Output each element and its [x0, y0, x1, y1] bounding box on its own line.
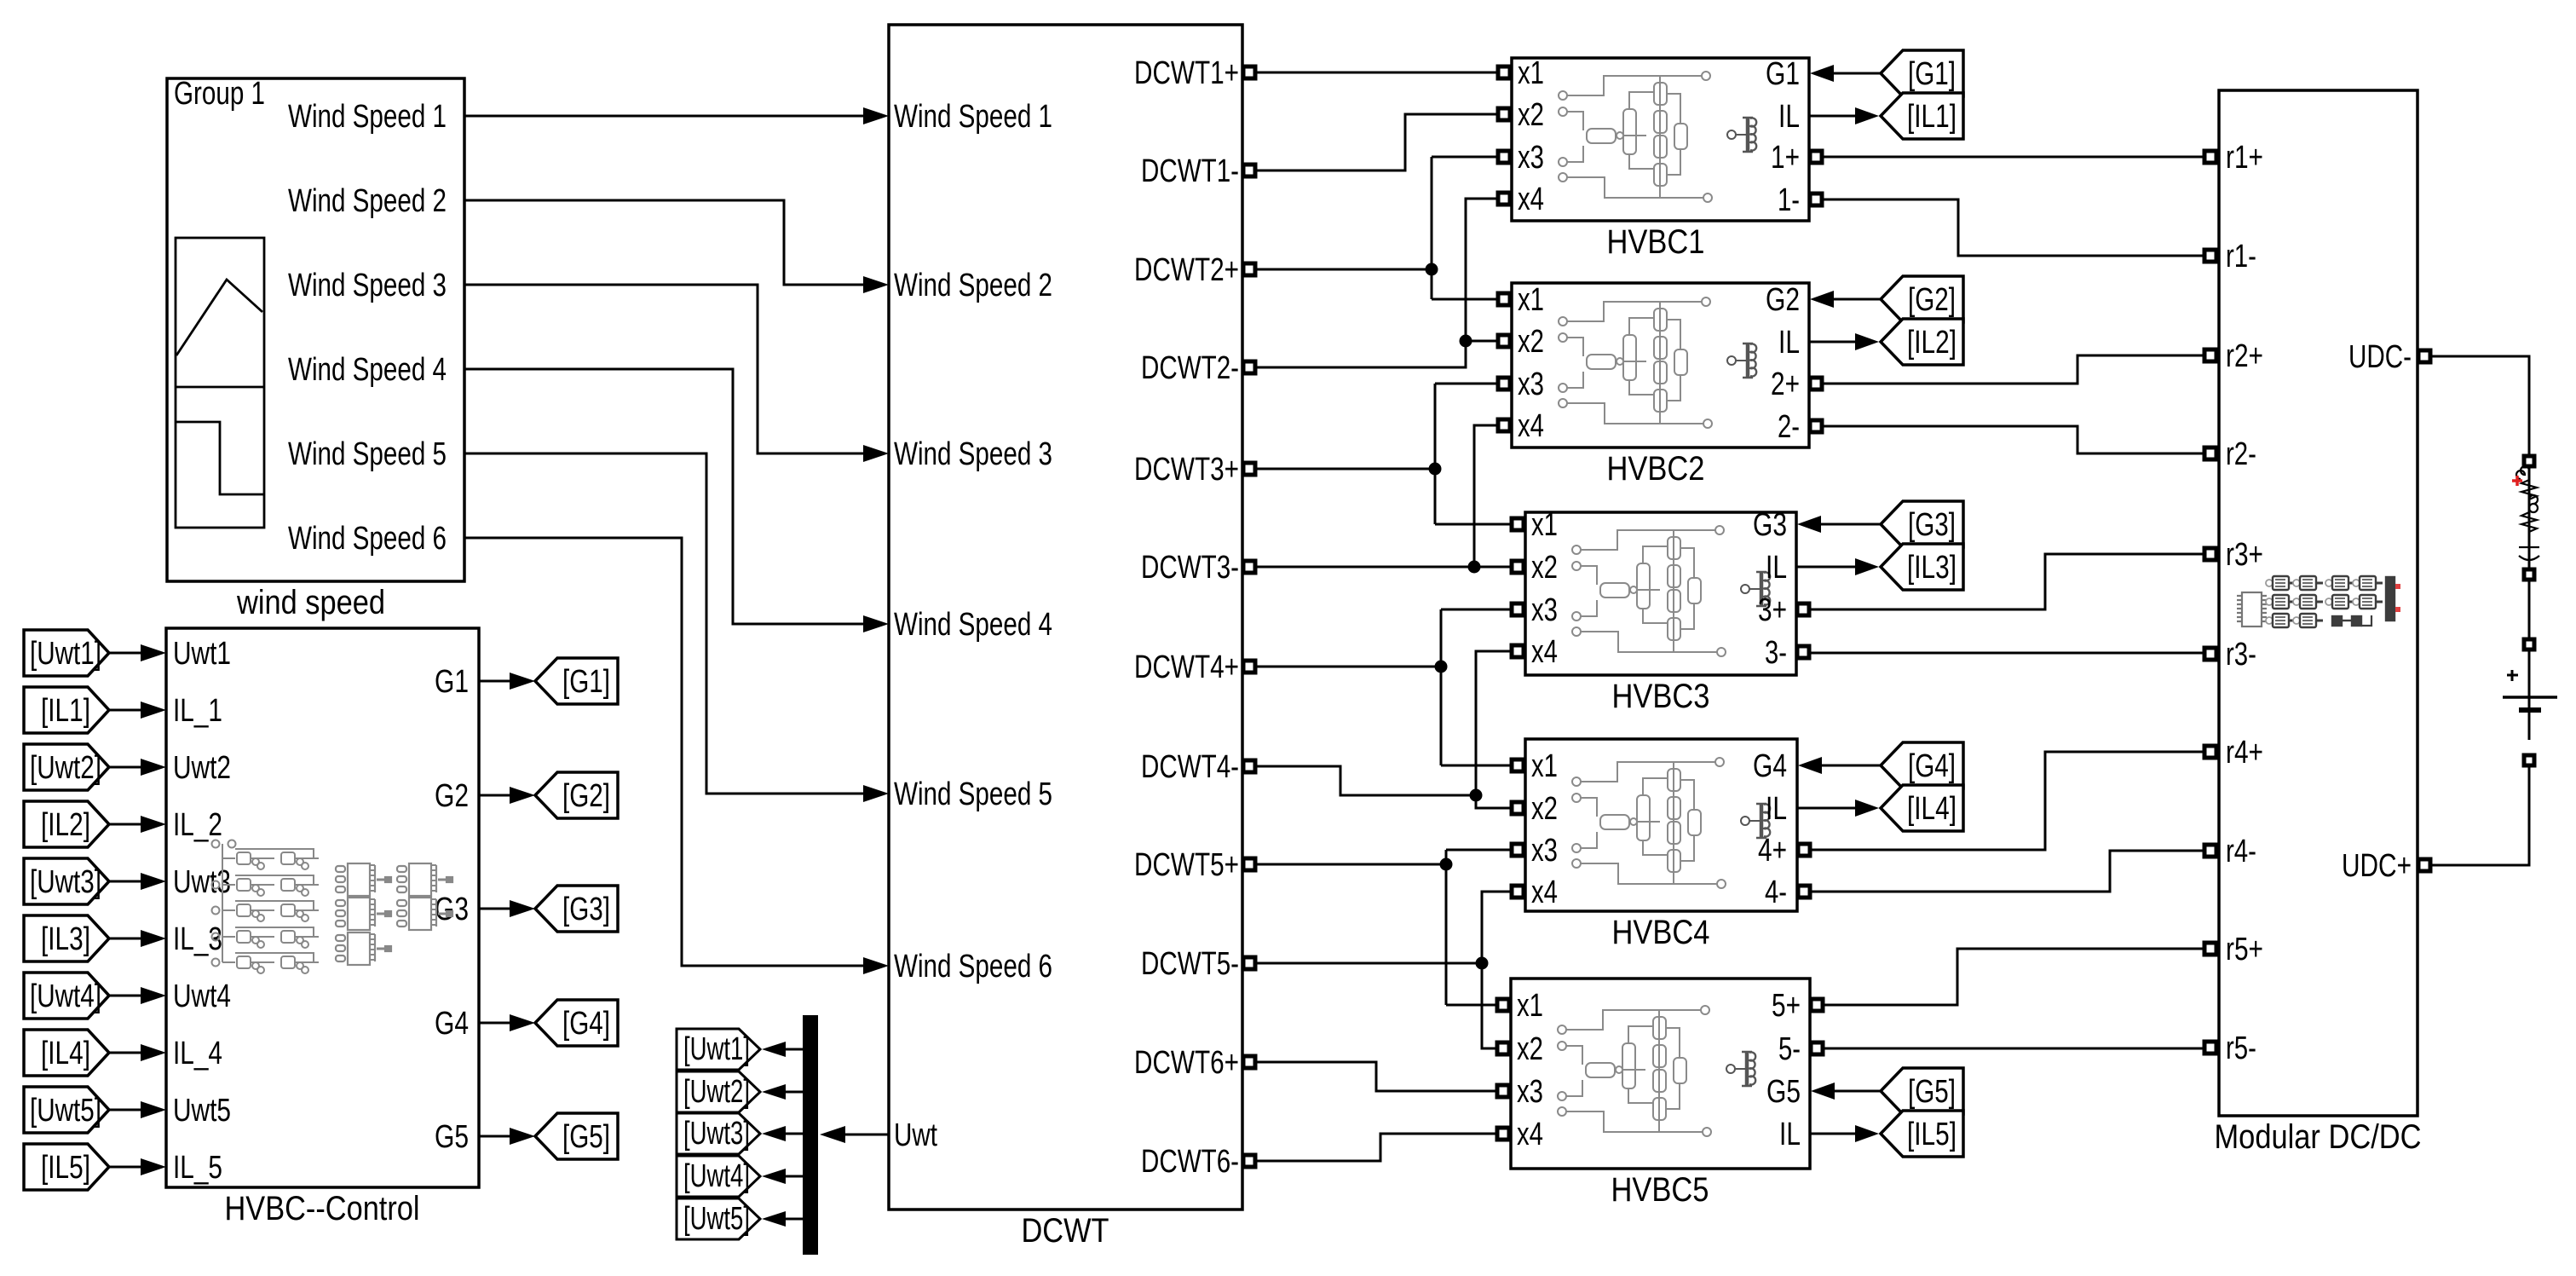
svg-text:IL_3: IL_3: [173, 921, 222, 957]
svg-text:[G4]: [G4]: [1908, 748, 1956, 784]
wire DCWT3- branch to HVBC2 x4: [1474, 425, 1498, 567]
svg-text:IL_2: IL_2: [173, 807, 222, 843]
port pad DCWT2+: [1243, 263, 1255, 275]
wire DCWT6+ to HVBC5 x3: [1256, 1062, 1497, 1091]
wire DCWT5- branches to HVBC4 x4 / HVBC5 x2: [1482, 892, 1512, 1048]
wire DCWT3- to HVBC3 x2: [1256, 566, 1512, 569]
wire Wind Speed 3: [464, 285, 863, 453]
svg-text:2-: 2-: [1778, 409, 1800, 445]
svg-text:Wind Speed 2: Wind Speed 2: [288, 183, 447, 219]
wire demux to [Uwt5]: [786, 1218, 803, 1221]
port pad r2+: [2204, 349, 2216, 361]
Goto tag [Uwt1] (demux): [677, 1029, 760, 1070]
svg-text:Wind Speed 3: Wind Speed 3: [288, 268, 447, 303]
From tag [Uwt1]: [24, 630, 109, 676]
wire DCWT4+: [1256, 666, 1441, 668]
svg-text:x3: x3: [1531, 592, 1558, 628]
svg-text:wind speed: wind speed: [236, 584, 385, 621]
svg-text:HVBC--Control: HVBC--Control: [225, 1190, 420, 1227]
port pad DCWT3+: [1243, 463, 1255, 475]
wire DCWT1- to HVBC1 x2: [1256, 114, 1498, 170]
Goto tag [Uwt2] (demux): [677, 1071, 760, 1112]
port pad r1+: [2204, 151, 2216, 163]
From tag [IL2]: [24, 801, 109, 847]
wire 1+ to r1+: [1821, 156, 2204, 159]
wire HVBC2 IL to [IL2]: [1809, 341, 1855, 344]
svg-text:3-: 3-: [1765, 635, 1787, 671]
Goto tag [IL4]: [1881, 785, 1963, 831]
svg-text:HVBC4: HVBC4: [1612, 914, 1710, 951]
From tag [IL3]: [24, 915, 109, 961]
From tag [Uwt4]: [24, 973, 109, 1019]
svg-text:x2: x2: [1518, 97, 1544, 133]
Goto tag [Uwt5] (demux): [677, 1198, 760, 1239]
svg-text:r5+: r5+: [2226, 932, 2263, 967]
wire DCWT3+: [1256, 468, 1435, 471]
svg-text:Uwt: Uwt: [894, 1117, 937, 1153]
svg-text:DCWT5+: DCWT5+: [1134, 847, 1239, 883]
Goto tag [G3]: [535, 886, 618, 932]
svg-text:4-: 4-: [1765, 875, 1787, 910]
svg-text:[IL4]: [IL4]: [1907, 791, 1956, 827]
wire 3+ to r3+: [1808, 554, 2204, 609]
svg-text:x2: x2: [1531, 550, 1558, 586]
From tag [G5]: [1881, 1068, 1963, 1114]
wire HVBC1 IL to [IL1]: [1809, 115, 1855, 118]
svg-text:r4-: r4-: [2226, 834, 2256, 869]
svg-text:HVBC5: HVBC5: [1611, 1171, 1709, 1209]
wire DCWT2- to HVBC2 x2: [1256, 341, 1498, 367]
pad battery top: [2524, 639, 2534, 650]
port pad DCWT1+: [1243, 66, 1255, 78]
svg-text:Modular DC/DC: Modular DC/DC: [2215, 1118, 2422, 1156]
svg-text:[G1]: [G1]: [562, 664, 610, 700]
wire DCWT2- branch to HVBC1 x4: [1466, 199, 1498, 341]
svg-text:3+: 3+: [1758, 592, 1787, 628]
svg-text:[IL5]: [IL5]: [41, 1150, 90, 1186]
svg-text:Uwt5: Uwt5: [173, 1093, 231, 1129]
HVBC2 input x3: [1498, 378, 1510, 390]
port pad r4+: [2204, 746, 2216, 758]
svg-text:x3: x3: [1518, 367, 1544, 402]
svg-text:DCWT1-: DCWT1-: [1141, 153, 1239, 189]
HVBC1 input x2: [1498, 108, 1510, 120]
HVBC3 input x1: [1512, 518, 1524, 530]
wire [G1] tag to HVBC1: [1833, 72, 1881, 75]
junction DCWT3+: [1429, 463, 1442, 476]
svg-text:[Uwt1]: [Uwt1]: [683, 1031, 750, 1067]
wire 4- to r4-: [1808, 851, 2204, 892]
svg-text:[G4]: [G4]: [562, 1006, 610, 1042]
port pad DCWT6-: [1243, 1155, 1255, 1167]
wire G2 to Goto tag: [479, 794, 511, 797]
Goto tag [IL1]: [1881, 93, 1963, 139]
wire [Uwt4] to HVBC--Control: [109, 995, 142, 997]
svg-text:r5-: r5-: [2226, 1031, 2256, 1066]
wire DCWT5+ branches to HVBC4 x3 / HVBC5 x1: [1446, 850, 1512, 1005]
svg-text:[IL1]: [IL1]: [1907, 99, 1956, 135]
HVBC5 input x4: [1497, 1128, 1509, 1140]
svg-text:[Uwt3]: [Uwt3]: [30, 864, 101, 900]
wire Wind Speed 2: [464, 200, 863, 285]
port pad UDC-: [2418, 350, 2430, 362]
From tag [G2]: [1881, 276, 1963, 322]
junction DCWT2-: [1460, 335, 1472, 348]
svg-text:DCWT6-: DCWT6-: [1141, 1144, 1239, 1180]
svg-text:[IL1]: [IL1]: [41, 693, 90, 729]
wire Wind Speed 6: [464, 538, 863, 966]
HVBC2 input x4: [1498, 419, 1510, 431]
HVBC2 input x2: [1498, 335, 1510, 347]
svg-text:DCWT3+: DCWT3+: [1134, 452, 1239, 488]
pad load chain mid: [2524, 569, 2534, 580]
wire Wind Speed 4: [464, 369, 863, 624]
series RLC load icons: [2516, 466, 2539, 560]
port pad r3+: [2204, 548, 2216, 560]
Goto tag [IL5]: [1881, 1111, 1963, 1157]
svg-text:[IL2]: [IL2]: [1907, 325, 1956, 361]
block HVBC2: [1512, 283, 1809, 447]
wire [Uwt1] to HVBC--Control: [109, 652, 142, 655]
wire 5- to r5-: [1822, 1048, 2204, 1050]
Goto tag [IL3]: [1881, 544, 1963, 590]
From tag [Uwt3]: [24, 858, 109, 904]
wire demux to [Uwt4]: [786, 1175, 803, 1178]
wire UDC- to load chain: [2430, 356, 2529, 457]
svg-text:[Uwt4]: [Uwt4]: [683, 1158, 750, 1194]
svg-text:[G3]: [G3]: [562, 892, 610, 927]
wire Wind Speed 1: [464, 115, 863, 118]
svg-text:[G2]: [G2]: [1908, 282, 1956, 318]
wire G5 to Goto tag: [479, 1135, 511, 1138]
junction DCWT4+: [1435, 661, 1448, 673]
svg-text:[Uwt2]: [Uwt2]: [683, 1074, 750, 1110]
svg-text:G3: G3: [1753, 507, 1787, 543]
HVBC4 input x2: [1512, 802, 1524, 814]
svg-text:[IL5]: [IL5]: [1907, 1117, 1956, 1152]
wire demux to [Uwt1]: [786, 1048, 803, 1051]
svg-text:x2: x2: [1531, 791, 1558, 827]
wire [IL3] to HVBC--Control: [109, 938, 142, 940]
wire [G4] tag to HVBC4: [1821, 765, 1881, 767]
wire 1- to r1-: [1821, 199, 2204, 256]
svg-text:IL: IL: [1766, 791, 1787, 827]
svg-text:x4: x4: [1531, 875, 1558, 910]
wire DCWT2+ branches to HVBC1 x3 / HVBC2 x1: [1432, 157, 1498, 299]
wire DCWT1+ to HVBC1 x1: [1256, 72, 1498, 74]
battery symbol: [2507, 670, 2518, 681]
pad battery bottom: [2524, 755, 2534, 765]
wire HVBC3 IL to [IL3]: [1796, 566, 1855, 569]
svg-text:5+: 5+: [1772, 988, 1801, 1024]
HVBC3 input x2: [1512, 561, 1524, 573]
svg-text:Wind Speed 4: Wind Speed 4: [288, 352, 447, 388]
port pad DCWT6+: [1243, 1056, 1255, 1068]
port pad DCWT4-: [1243, 760, 1255, 772]
svg-text:IL: IL: [1766, 550, 1787, 586]
svg-text:G2: G2: [435, 778, 469, 814]
svg-text:2+: 2+: [1771, 367, 1800, 402]
Goto tag [Uwt4] (demux): [677, 1156, 760, 1197]
svg-text:1+: 1+: [1771, 140, 1800, 176]
svg-text:DCWT4+: DCWT4+: [1134, 650, 1239, 685]
svg-text:Wind Speed 6: Wind Speed 6: [288, 521, 447, 557]
svg-text:Uwt2: Uwt2: [173, 750, 231, 786]
HVBC3 inner circuit icon: [1572, 526, 1770, 656]
block HVBC5: [1511, 979, 1810, 1169]
svg-text:r3+: r3+: [2226, 537, 2263, 573]
svg-text:G5: G5: [435, 1119, 469, 1155]
wire HVBC4 IL to [IL4]: [1797, 807, 1855, 810]
wire [Uwt5] to HVBC--Control: [109, 1109, 142, 1111]
wire DCWT4+ branches to HVBC3 x3 / HVBC4 x1: [1441, 609, 1512, 765]
svg-text:G5: G5: [1766, 1074, 1801, 1110]
HVBC5 inner circuit icon: [1558, 1006, 1755, 1136]
wire load chain to UDC+: [2430, 765, 2529, 865]
Modular DC/DC inner circuit icon: [2237, 592, 2267, 626]
svg-text:[Uwt3]: [Uwt3]: [683, 1116, 750, 1152]
HVBC1 input x1: [1498, 66, 1510, 78]
port pad DCWT2-: [1243, 361, 1255, 373]
wire G3 to Goto tag: [479, 908, 511, 910]
svg-text:4+: 4+: [1758, 833, 1787, 869]
svg-text:G2: G2: [1766, 282, 1800, 318]
svg-text:x3: x3: [1531, 833, 1558, 869]
svg-text:x4: x4: [1517, 1117, 1543, 1152]
block Modular DC/DC: [2219, 90, 2418, 1116]
svg-text:[G5]: [G5]: [1908, 1074, 1956, 1110]
wire DCWT3+ branches to HVBC2 x3 / HVBC3 x1: [1435, 384, 1512, 524]
block HVBC3: [1525, 512, 1796, 675]
svg-text:G1: G1: [435, 664, 469, 700]
svg-text:DCWT2-: DCWT2-: [1141, 350, 1239, 386]
svg-text:1-: 1-: [1778, 182, 1800, 218]
port pad DCWT3-: [1243, 561, 1255, 573]
svg-text:Wind Speed 5: Wind Speed 5: [894, 777, 1052, 812]
junction DCWT5+: [1440, 858, 1453, 871]
svg-text:[Uwt4]: [Uwt4]: [30, 979, 101, 1014]
svg-text:HVBC3: HVBC3: [1612, 678, 1710, 715]
svg-text:r2+: r2+: [2226, 338, 2263, 374]
wire DCWT5+: [1256, 863, 1446, 866]
HVBC--Control inner chips: [336, 863, 452, 965]
wire DCWT5-: [1256, 962, 1482, 965]
wire Wind Speed 5: [464, 453, 863, 794]
block DCWT: [889, 25, 1242, 1210]
block Group 1 (wind speed source): [167, 78, 464, 581]
svg-text:[Uwt1]: [Uwt1]: [30, 636, 101, 672]
HVBC4 inner circuit icon: [1572, 758, 1770, 888]
wire [IL4] to HVBC--Control: [109, 1052, 142, 1054]
From tag [IL4]: [24, 1030, 109, 1076]
svg-text:[IL3]: [IL3]: [41, 921, 90, 957]
svg-text:DCWT3-: DCWT3-: [1141, 550, 1239, 586]
svg-text:DCWT5-: DCWT5-: [1141, 946, 1239, 982]
wire HVBC5 IL to [IL5]: [1810, 1133, 1855, 1135]
svg-text:Wind Speed 2: Wind Speed 2: [894, 268, 1052, 303]
From tag [G4]: [1881, 742, 1963, 788]
svg-text:HVBC2: HVBC2: [1607, 450, 1705, 488]
svg-text:r1-: r1-: [2226, 239, 2256, 274]
wire G1 to Goto tag: [479, 680, 511, 683]
svg-text:x3: x3: [1517, 1074, 1543, 1110]
wire [G3] tag to HVBC3: [1820, 523, 1881, 526]
HVBC3 input x3: [1512, 603, 1524, 615]
svg-text:5-: 5-: [1778, 1031, 1801, 1067]
svg-text:[Uwt5]: [Uwt5]: [683, 1201, 750, 1237]
port pad DCWT4+: [1243, 661, 1255, 673]
wire 2+ to r2+: [1821, 355, 2204, 384]
port pad r5-: [2204, 1042, 2216, 1054]
wire 2- to r2-: [1821, 426, 2204, 453]
wire [IL5] to HVBC--Control: [109, 1166, 142, 1169]
wire G4 to Goto tag: [479, 1022, 511, 1025]
HVBC1 input x3: [1498, 151, 1510, 163]
From tag [Uwt5]: [24, 1087, 109, 1133]
svg-text:[Uwt5]: [Uwt5]: [30, 1093, 101, 1129]
junction DCWT4-: [1470, 789, 1483, 802]
HVBC--Control inner circuit icon: [212, 840, 320, 974]
HVBC2 inner circuit icon: [1559, 297, 1756, 428]
svg-text:x2: x2: [1518, 324, 1544, 360]
wire [IL2] to HVBC--Control: [109, 823, 142, 826]
svg-text:DCWT4-: DCWT4-: [1141, 749, 1239, 785]
svg-text:x1: x1: [1518, 282, 1544, 318]
junction DCWT2+: [1426, 263, 1438, 276]
svg-text:Group 1: Group 1: [174, 76, 265, 112]
wire DCWT6- to HVBC5 x4: [1256, 1134, 1497, 1161]
svg-text:r3-: r3-: [2226, 637, 2256, 673]
Goto tag [G5]: [535, 1113, 618, 1159]
wire DCWT4- branches to HVBC3 x4 / HVBC4 x2: [1476, 651, 1512, 808]
From tag [IL1]: [24, 687, 109, 733]
From tag [IL5]: [24, 1144, 109, 1190]
port pad r3-: [2204, 648, 2216, 660]
block HVBC4: [1525, 739, 1797, 911]
svg-text:Wind Speed 5: Wind Speed 5: [288, 436, 447, 472]
svg-text:[G1]: [G1]: [1908, 56, 1956, 92]
demux bar: [803, 1015, 818, 1255]
wire DCWT2+: [1256, 268, 1432, 271]
svg-text:Wind Speed 4: Wind Speed 4: [894, 607, 1052, 643]
svg-text:Wind Speed 1: Wind Speed 1: [288, 99, 447, 135]
wire 5+ to r5+: [1822, 949, 2204, 1005]
svg-text:IL: IL: [1778, 99, 1800, 135]
wire [IL1] to HVBC--Control: [109, 709, 142, 712]
wire [Uwt2] to HVBC--Control: [109, 766, 142, 769]
wire [G5] tag to HVBC5: [1834, 1090, 1881, 1093]
Goto tag [G4]: [535, 1000, 618, 1046]
svg-text:[G3]: [G3]: [1908, 507, 1956, 543]
HVBC5 input x3: [1497, 1085, 1509, 1097]
From tag [G1]: [1881, 50, 1963, 96]
svg-text:[G5]: [G5]: [562, 1119, 610, 1155]
svg-text:x4: x4: [1518, 182, 1544, 217]
svg-text:G3: G3: [435, 892, 469, 927]
port pad DCWT5+: [1243, 858, 1255, 870]
svg-text:r1+: r1+: [2226, 140, 2263, 176]
junction DCWT5-: [1476, 957, 1489, 970]
From tag [G3]: [1881, 501, 1963, 547]
HVBC4 input x4: [1512, 886, 1524, 898]
Goto tag [Uwt3] (demux): [677, 1113, 760, 1154]
HVBC2 input x1: [1498, 293, 1510, 305]
Goto tag [IL2]: [1881, 319, 1963, 365]
Goto tag [G2]: [535, 772, 618, 818]
svg-text:IL_4: IL_4: [173, 1036, 222, 1071]
svg-text:IL: IL: [1779, 1117, 1801, 1152]
svg-text:[IL2]: [IL2]: [41, 807, 90, 843]
block HVBC--Control: [166, 628, 479, 1187]
svg-text:x4: x4: [1518, 408, 1544, 444]
wire Uwt to demux bar: [844, 1134, 889, 1136]
wire [Uwt3] to HVBC--Control: [109, 880, 142, 883]
HVBC3 input x4: [1512, 645, 1524, 657]
port pad DCWT5-: [1243, 957, 1255, 969]
svg-text:Wind Speed 6: Wind Speed 6: [894, 949, 1052, 984]
svg-text:UDC+: UDC+: [2342, 848, 2412, 884]
Goto tag [G1]: [535, 658, 618, 704]
svg-text:x1: x1: [1518, 55, 1544, 91]
wire demux to [Uwt3]: [786, 1133, 803, 1135]
port pad r5+: [2204, 943, 2216, 955]
svg-text:G1: G1: [1766, 56, 1800, 92]
HVBC5 input x2: [1497, 1042, 1509, 1054]
svg-text:IL: IL: [1778, 325, 1800, 361]
svg-text:Wind Speed 1: Wind Speed 1: [894, 99, 1052, 135]
svg-text:UDC-: UDC-: [2348, 339, 2412, 375]
HVBC5 input x1: [1497, 999, 1509, 1011]
wire 4+ to r4+: [1808, 752, 2204, 850]
port pad DCWT1-: [1243, 165, 1255, 176]
wind speed source icon: [176, 238, 264, 528]
svg-text:x1: x1: [1531, 748, 1558, 784]
svg-text:DCWT6+: DCWT6+: [1134, 1045, 1239, 1081]
svg-text:r2-: r2-: [2226, 436, 2256, 472]
wire load chain middle: [2528, 465, 2531, 740]
port pad r2-: [2204, 447, 2216, 459]
svg-text:G4: G4: [1753, 748, 1787, 784]
port pad r4-: [2204, 845, 2216, 857]
svg-text:x2: x2: [1517, 1031, 1543, 1067]
svg-text:Wind Speed 3: Wind Speed 3: [894, 436, 1052, 472]
wire [G2] tag to HVBC2: [1833, 298, 1881, 301]
wire 3- to r3-: [1808, 652, 2204, 655]
junction DCWT3-: [1468, 561, 1481, 574]
wire DCWT4-: [1256, 766, 1476, 795]
svg-text:x4: x4: [1531, 634, 1558, 670]
wire demux to [Uwt2]: [786, 1091, 803, 1094]
From tag [Uwt2]: [24, 744, 109, 790]
HVBC4 input x3: [1512, 844, 1524, 856]
svg-text:[G2]: [G2]: [562, 778, 610, 814]
svg-text:Uwt4: Uwt4: [173, 979, 231, 1014]
svg-text:[IL4]: [IL4]: [41, 1036, 90, 1071]
port pad UDC+: [2418, 859, 2430, 871]
svg-text:r4+: r4+: [2226, 735, 2263, 771]
svg-text:x1: x1: [1531, 507, 1558, 543]
svg-text:DCWT1+: DCWT1+: [1134, 55, 1239, 91]
pad load chain top: [2524, 456, 2534, 466]
svg-text:HVBC1: HVBC1: [1607, 223, 1705, 261]
svg-text:IL_5: IL_5: [173, 1150, 222, 1186]
port pad r1-: [2204, 250, 2216, 262]
block HVBC1: [1512, 58, 1809, 221]
svg-text:[IL3]: [IL3]: [1907, 550, 1956, 586]
HVBC1 input x4: [1498, 193, 1510, 205]
HVBC1 inner circuit icon: [1559, 72, 1756, 202]
svg-text:x3: x3: [1518, 140, 1544, 176]
